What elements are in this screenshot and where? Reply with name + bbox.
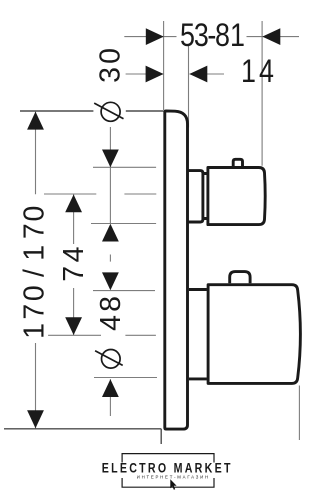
svg-text:ELECTRO MARKET: ELECTRO MARKET [102, 460, 233, 476]
svg-text:1: 1 [241, 54, 256, 90]
svg-text:0: 0 [18, 285, 50, 301]
svg-text:3: 3 [95, 67, 127, 83]
svg-text:8: 8 [215, 18, 230, 54]
svg-text:4: 4 [58, 246, 90, 262]
svg-text:5: 5 [180, 18, 195, 54]
svg-text:4: 4 [95, 315, 127, 331]
svg-text:7: 7 [18, 223, 50, 239]
svg-text:7: 7 [58, 266, 90, 282]
svg-text:0: 0 [95, 48, 127, 64]
svg-text:0: 0 [18, 206, 50, 222]
svg-text:1: 1 [18, 323, 50, 339]
svg-text:1: 1 [230, 18, 245, 54]
svg-text:7: 7 [18, 304, 50, 320]
svg-text:4: 4 [259, 54, 274, 90]
svg-text:/: / [18, 269, 50, 277]
svg-text:1: 1 [18, 245, 50, 261]
svg-text:8: 8 [95, 296, 127, 312]
svg-text:ИНТЕРНЕТ-МАГАЗИН: ИНТЕРНЕТ-МАГАЗИН [137, 474, 210, 479]
svg-text:3: 3 [194, 18, 209, 54]
